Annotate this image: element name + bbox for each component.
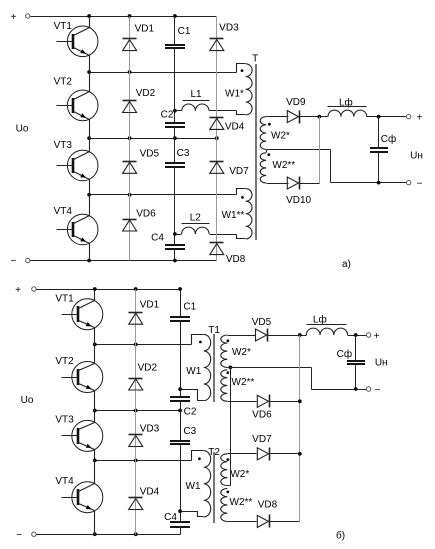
svg-text:VT4: VT4 <box>54 206 73 217</box>
diode VD5 (b) <box>252 317 272 341</box>
svg-text:VD5: VD5 <box>140 149 160 160</box>
svg-text:W1: W1 <box>186 366 201 377</box>
node C3/C4/W1 (b) <box>178 509 182 513</box>
wire C3 to W1 node (b) <box>180 445 182 523</box>
svg-text:W2*: W2* <box>271 131 290 142</box>
wire rail3 (b) <box>95 410 181 412</box>
diode VD6 (b) <box>252 395 272 421</box>
wire C4 to bottom rail (b) <box>180 527 182 535</box>
svg-text:VD9: VD9 <box>286 97 306 108</box>
wire Lf to + terminal (b) <box>348 335 367 337</box>
transformer T1 core (b) <box>213 334 215 402</box>
svg-text:C2: C2 <box>161 110 174 121</box>
capacitor C2 (a) <box>161 110 185 128</box>
node VD9/VD10 cathodes (a) <box>317 115 321 119</box>
output terminal - (a) <box>407 180 411 184</box>
node rail3/VD2-VD5 <box>128 136 132 140</box>
node rail4/VT (b) <box>93 459 97 463</box>
winding W2** (a) <box>260 153 295 184</box>
diode VD8 (b) <box>257 500 277 528</box>
svg-text:C2: C2 <box>184 406 197 417</box>
wire C1 stem upper (b) <box>180 290 182 318</box>
capacitor C1 (a) <box>165 26 191 48</box>
capacitor C3 (b) <box>170 426 197 444</box>
capacitor C2 (b) <box>170 397 197 417</box>
transistor VT3 (b) <box>55 411 102 461</box>
svg-text:VD7: VD7 <box>229 166 249 177</box>
capacitor Cf (a) <box>370 117 396 183</box>
svg-text:−: − <box>11 256 17 267</box>
svg-text:W2**: W2** <box>230 497 253 508</box>
phase dot W1 of T1 (b) <box>199 341 202 344</box>
phase dot W2** of T1 (b) <box>226 371 229 374</box>
svg-text:W2*: W2* <box>232 347 251 358</box>
node rail3/C2-C3 (b) <box>178 409 182 413</box>
wire C3 to L2 node (a) <box>174 167 176 245</box>
node bus/VD7 (b) <box>298 452 302 456</box>
node bus/VD6 (b) <box>298 399 302 403</box>
transistor VT2 (b) <box>55 345 102 411</box>
phase dot W1* (a) <box>241 69 244 72</box>
phase dot W1** (a) <box>241 196 244 199</box>
wire VD6 cathode (b) <box>270 401 300 403</box>
node top-rail/VD1 (b) <box>134 287 138 291</box>
wire rail3 to C3 (a) <box>174 139 176 164</box>
capacitor C1 (b) <box>170 302 197 321</box>
phase dot W2** (a) <box>267 153 270 156</box>
node rail3/VD4-VD7 <box>215 136 219 140</box>
node top-rail/VD1 <box>128 14 132 18</box>
winding W2* (a) <box>260 117 290 150</box>
wire VD7 cathode (b) <box>270 453 300 455</box>
wire C4 to bottom rail (a) <box>174 249 176 261</box>
phase dot W1 of T2 (b) <box>198 457 201 460</box>
svg-text:W1: W1 <box>186 481 201 492</box>
inductor Lf (b) <box>306 313 347 335</box>
diode VD9 (a) <box>286 97 306 123</box>
node rail3/VT chain <box>87 136 91 140</box>
wire VD5 cathode (b) <box>268 335 307 337</box>
svg-text:VD3: VD3 <box>140 424 160 435</box>
transistor VT4 (b) <box>55 461 102 535</box>
svg-text:VT3: VT3 <box>55 415 74 426</box>
wire bottom output line (b) <box>312 389 367 391</box>
svg-text:VD6: VD6 <box>252 410 272 421</box>
wire VD3-VD4-VD7-VD8 column (a) <box>216 17 218 261</box>
node rail4/VD6 <box>128 193 132 197</box>
wire C1 to W1 node (b) <box>180 322 182 398</box>
winding W1 of T1 (b) <box>181 334 211 400</box>
wire tap T2 + tap bus (b) <box>228 485 231 487</box>
node top-rail/VT1 (b) <box>93 287 97 291</box>
diode VD3 (a) <box>210 23 240 51</box>
wire VD8 cathode (b) <box>270 521 300 523</box>
svg-text:L1: L1 <box>190 89 202 100</box>
node bottom-rail/VT4 <box>87 259 91 263</box>
node rectifier bus top (b) <box>298 333 302 337</box>
svg-text:Uн: Uн <box>410 151 423 162</box>
wire VD10 cathode (a) <box>300 183 320 185</box>
svg-text:−: − <box>16 530 22 541</box>
svg-text:Lф: Lф <box>313 313 327 325</box>
node rail2/VT chain <box>87 70 91 74</box>
wire tap T1 to return (b) <box>228 367 312 369</box>
capacitor C3 (a) <box>165 148 190 167</box>
transformer T core (a) <box>255 64 257 240</box>
diode VD6 (a) <box>123 208 157 231</box>
svg-text:VD8: VD8 <box>226 254 246 265</box>
svg-text:VT2: VT2 <box>55 356 74 367</box>
svg-text:VD2: VD2 <box>136 88 156 99</box>
output terminal - (b) <box>366 387 370 391</box>
inductor L1 (a) <box>176 89 237 111</box>
output terminal + (a) <box>407 114 411 118</box>
node rail2/VT (b) <box>93 343 97 347</box>
diode VD4 (a) <box>210 118 245 133</box>
svg-text:W2*: W2* <box>230 469 249 480</box>
transistor VT4 (a) <box>54 195 98 261</box>
inductor L2 (a) <box>176 213 237 235</box>
node bottom-rail/VT4 (b) <box>93 532 97 536</box>
svg-text:+: + <box>11 12 17 23</box>
winding W2** of T1 (b) <box>221 370 257 402</box>
wire rail3 to C3 (b) <box>180 411 182 442</box>
svg-text:VD1: VD1 <box>140 300 160 311</box>
wire center tap (a) <box>267 149 331 151</box>
svg-text:а): а) <box>342 259 351 270</box>
transistor VT2 (a) <box>54 73 98 139</box>
svg-text:VT2: VT2 <box>54 77 73 88</box>
wire Lf to + terminal (a) <box>367 116 407 118</box>
svg-text:VD7: VD7 <box>252 434 272 445</box>
transistor VT1 (b) <box>55 290 102 345</box>
wire rail2 (a) VT1-VT2 midpoint <box>90 72 237 74</box>
svg-text:C4: C4 <box>151 233 164 244</box>
svg-text:C3: C3 <box>183 426 196 437</box>
svg-text:VT3: VT3 <box>54 140 73 151</box>
node rail3/VD2-VD3 (b) <box>134 409 138 413</box>
diode VD7 (b) <box>252 434 272 461</box>
wire rail4 (b) <box>95 460 192 462</box>
svg-text:VT1: VT1 <box>55 293 74 304</box>
wire C column upper (a) <box>174 17 176 45</box>
winding W1 of T2 (b) <box>181 451 211 517</box>
svg-text:+: + <box>417 112 423 123</box>
node L2/C3/C4 (a) <box>173 232 177 236</box>
svg-text:W1**: W1** <box>222 210 245 221</box>
wire rail3 (a) VT2-VT3 midpoint <box>90 138 217 140</box>
node rail4/VT chain <box>87 193 91 197</box>
svg-text:W2**: W2** <box>272 160 295 171</box>
svg-text:W1*: W1* <box>225 89 244 100</box>
svg-text:−: − <box>417 178 423 189</box>
node rail3/C2-C3 <box>173 136 177 140</box>
diode VD2 (b) <box>129 362 158 390</box>
node L1/C1/C2 (a) <box>173 109 177 113</box>
winding W2* of T2 (b) <box>221 454 257 486</box>
wire top rail (a) <box>31 16 217 18</box>
node Cf top (a) <box>377 115 381 119</box>
wire C1 to L1 node (a) <box>174 49 176 123</box>
output terminal + (b) <box>366 333 370 337</box>
wire VD1-VD4 column (b) <box>135 290 137 535</box>
svg-text:C1: C1 <box>178 26 191 37</box>
svg-text:Сф: Сф <box>381 133 396 145</box>
transformer T2 core (b) <box>213 452 215 523</box>
svg-text:+: + <box>15 285 21 296</box>
wire VD9 cathode to Lf (a) <box>300 116 329 118</box>
diode VD1 (b) <box>129 300 160 325</box>
wire tap return vertical (a) <box>330 150 332 183</box>
svg-text:Сф: Сф <box>337 348 352 360</box>
svg-text:VD1: VD1 <box>135 24 155 35</box>
diode VD3 (b) <box>129 424 160 447</box>
node top-rail/C1 <box>173 14 177 18</box>
svg-text:Uо: Uо <box>21 395 34 406</box>
node rail2/VD2 <box>128 70 132 74</box>
svg-text:L2: L2 <box>190 213 202 224</box>
diode VD2 (a) <box>123 88 156 113</box>
transistor VT3 (a) <box>54 139 98 195</box>
svg-text:C1: C1 <box>183 302 196 313</box>
node top-rail/C1 (b) <box>178 287 182 291</box>
svg-text:T1: T1 <box>208 325 220 336</box>
node Cf top (b) <box>354 333 358 337</box>
node bottom-rail/C4 <box>173 259 177 263</box>
wire bottom rail (b) <box>37 534 181 536</box>
node top-rail/VT1 <box>87 14 91 18</box>
svg-text:Uо: Uо <box>16 124 29 135</box>
phase dot W2* of T2 (b) <box>226 458 229 461</box>
diode VD1 (a) <box>123 24 155 51</box>
svg-text:VD2: VD2 <box>138 362 158 373</box>
svg-text:−: − <box>375 385 381 396</box>
svg-text:VD4: VD4 <box>140 486 160 497</box>
inductor Lf (a) <box>328 96 367 116</box>
svg-text:VD10: VD10 <box>286 195 311 206</box>
node rail3/VT (b) <box>93 409 97 413</box>
node Cf bottom (a) <box>377 181 381 185</box>
svg-text:Uн: Uн <box>375 357 388 368</box>
wire rail2 (b) <box>95 344 192 346</box>
wire rectifier cathode bus (b) <box>299 336 301 522</box>
diode VD8 (a) <box>210 243 246 266</box>
phase dot W2* of T1 (b) <box>226 339 229 342</box>
wire VD1-VD2-VD5-VD6 column (a) <box>129 17 131 261</box>
svg-text:VD6: VD6 <box>136 208 156 219</box>
svg-text:б): б) <box>336 529 345 541</box>
diode VD5 (a) <box>123 149 160 174</box>
svg-text:+: + <box>374 331 380 342</box>
node C1/C2/W1 (b) <box>178 387 182 391</box>
wire tap return down (b) <box>311 368 313 390</box>
svg-text:T: T <box>252 54 258 65</box>
diode VD10 (a) <box>286 177 311 207</box>
wire C2 to rail3 (b) <box>180 401 182 411</box>
transistor VT1 (a) <box>54 17 98 73</box>
svg-text:VT1: VT1 <box>54 21 73 32</box>
wire bottom output line (a) <box>331 182 407 184</box>
phase dot W2* (a) <box>268 123 271 126</box>
diode VD7 (a) <box>210 162 250 177</box>
wire top rail (b) <box>37 289 181 291</box>
svg-text:VD5: VD5 <box>252 317 272 328</box>
capacitor C4 (a) <box>151 233 185 250</box>
node center tap T1 (b) <box>229 366 233 370</box>
svg-text:VD3: VD3 <box>219 23 239 34</box>
winding W2** of T2 (b) <box>221 488 257 521</box>
winding W1** (a) <box>222 189 252 239</box>
svg-text:VD4: VD4 <box>225 122 245 133</box>
wire C2 to rail3 (a) <box>174 127 176 139</box>
node bottom-rail/VD4 (b) <box>134 532 138 536</box>
diode VD4 (b) <box>129 486 160 509</box>
svg-text:C3: C3 <box>177 148 190 159</box>
wire rail4 (a) VT3-VT4 midpoint <box>90 194 237 196</box>
node Cf bottom (b) <box>354 387 358 391</box>
capacitor Cf (b) <box>337 336 365 390</box>
wire bottom rail (a) <box>31 260 217 262</box>
wire cathode link vertical (a) <box>319 117 321 184</box>
winding W2* of T1 (b) <box>221 335 256 367</box>
phase dot W2** of T2 (b) <box>226 491 229 494</box>
svg-text:VD8: VD8 <box>258 500 278 511</box>
capacitor C4 (b) <box>164 512 190 527</box>
node rail2/VD1-VD2 (b) <box>134 343 138 347</box>
winding W1* (a) <box>225 64 252 115</box>
svg-text:W2**: W2** <box>232 377 255 388</box>
node rail4/VD3-VD4 (b) <box>134 459 138 463</box>
svg-text:VT4: VT4 <box>55 476 74 487</box>
